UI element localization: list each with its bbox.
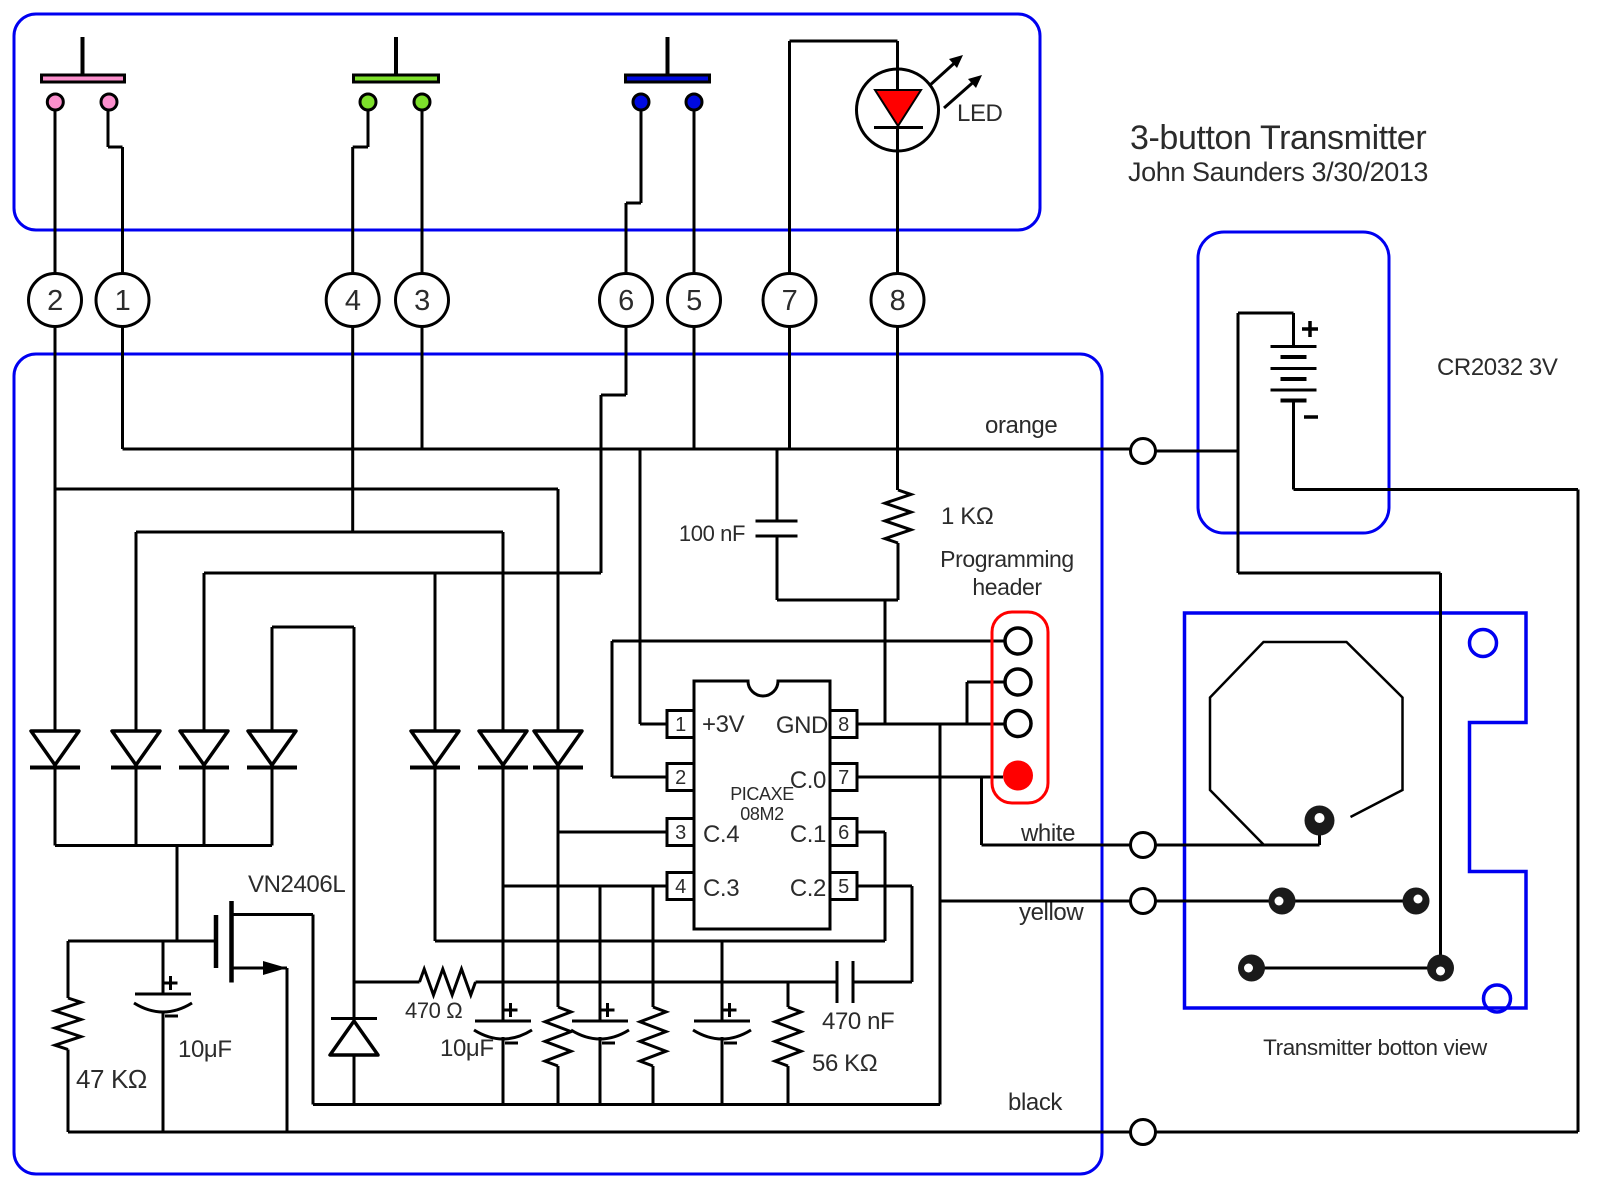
svg-text:LED: LED	[957, 100, 1003, 127]
svg-text:7: 7	[838, 767, 849, 789]
svg-text:C.4: C.4	[703, 821, 739, 848]
svg-text:header: header	[972, 574, 1042, 600]
svg-text:7: 7	[782, 285, 798, 317]
svg-text:8: 8	[838, 714, 849, 736]
svg-text:GND: GND	[776, 712, 828, 739]
svg-text:CR2032 3V: CR2032 3V	[1437, 354, 1558, 381]
svg-text:56 KΩ: 56 KΩ	[812, 1050, 877, 1077]
svg-text:C.0: C.0	[790, 767, 826, 794]
svg-text:2: 2	[47, 285, 63, 317]
svg-text:+3V: +3V	[702, 711, 745, 738]
svg-text:black: black	[1008, 1089, 1063, 1116]
svg-text:10μF: 10μF	[178, 1036, 232, 1063]
svg-text:orange: orange	[985, 412, 1057, 439]
svg-text:5: 5	[686, 285, 702, 317]
svg-text:C.1: C.1	[790, 821, 826, 848]
svg-text:1: 1	[675, 714, 686, 736]
svg-text:white: white	[1020, 820, 1075, 847]
svg-text:3: 3	[414, 285, 430, 317]
svg-text:Programming: Programming	[940, 546, 1074, 572]
svg-text:1: 1	[115, 285, 131, 317]
svg-text:2: 2	[675, 767, 686, 789]
svg-text:3: 3	[675, 822, 686, 844]
svg-text:6: 6	[838, 822, 849, 844]
svg-text:C.2: C.2	[790, 875, 826, 902]
svg-text:6: 6	[618, 285, 634, 317]
svg-text:3-button Transmitter: 3-button Transmitter	[1130, 119, 1426, 157]
svg-text:PICAXE: PICAXE	[730, 784, 794, 804]
svg-text:4: 4	[675, 876, 686, 898]
svg-text:100 nF: 100 nF	[679, 521, 745, 546]
svg-text:5: 5	[838, 876, 849, 898]
svg-text:Transmitter botton view: Transmitter botton view	[1263, 1035, 1488, 1060]
svg-text:47 KΩ: 47 KΩ	[76, 1064, 147, 1094]
svg-text:470 nF: 470 nF	[822, 1008, 894, 1035]
svg-text:VN2406L: VN2406L	[248, 871, 345, 898]
svg-text:John Saunders 3/30/2013: John Saunders 3/30/2013	[1128, 157, 1428, 187]
svg-text:10μF: 10μF	[440, 1035, 494, 1062]
svg-text:08M2: 08M2	[740, 804, 784, 824]
svg-text:1 KΩ: 1 KΩ	[941, 503, 993, 530]
svg-text:8: 8	[890, 285, 906, 317]
svg-text:yellow: yellow	[1019, 899, 1084, 926]
svg-text:4: 4	[345, 285, 361, 317]
svg-text:470 Ω: 470 Ω	[405, 998, 462, 1023]
svg-text:C.3: C.3	[703, 875, 739, 902]
